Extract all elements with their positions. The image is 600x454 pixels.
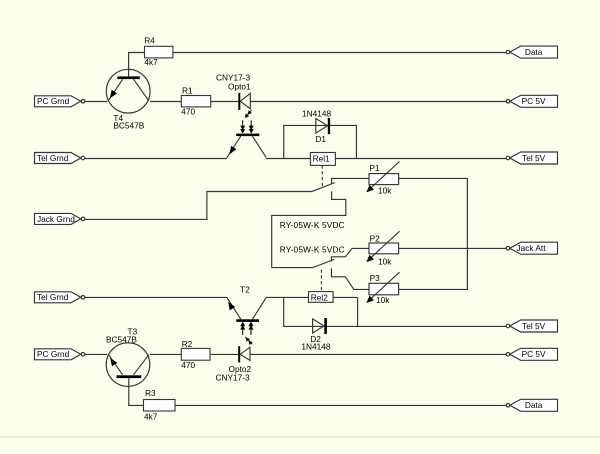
port Tel 5V bottom	[506, 320, 557, 332]
port Jack Grnd	[35, 213, 85, 224]
wire Opto1 LED to PC 5V	[250, 101, 506, 103]
svg-text:10k: 10k	[378, 256, 392, 266]
port PC 5V bottom	[506, 348, 557, 360]
svg-text:Opto1: Opto1	[228, 82, 251, 92]
wire T3 base to R3	[129, 378, 144, 405]
wire PC Grnd to T3 emitter	[85, 353, 107, 355]
diode D2	[313, 318, 327, 334]
svg-text:RY-05W-K 5VDC: RY-05W-K 5VDC	[280, 220, 345, 230]
wire Tel Grnd to Opto2 emitter	[85, 296, 227, 298]
svg-text:4k7: 4k7	[144, 57, 158, 67]
wire Tel Grnd to Opto1 emitter	[85, 158, 227, 160]
dashed link Rel1 to switch S1	[321, 165, 323, 186]
port Data bottom	[506, 399, 557, 411]
wire D1 loop	[284, 125, 357, 158]
svg-text:1N4148: 1N4148	[301, 341, 330, 351]
svg-text:R3: R3	[145, 388, 156, 398]
relay coil Rel1	[310, 153, 335, 166]
resistor R2	[181, 348, 210, 360]
diode D1	[316, 118, 330, 134]
wire P2 to Jack Att	[399, 247, 507, 249]
Opto1 light arrows	[240, 110, 254, 134]
svg-text:PC Grnd: PC Grnd	[37, 96, 70, 106]
port PC 5V top	[506, 95, 557, 107]
wire PC Grnd to T4 emitter	[85, 101, 107, 103]
dashed link Rel2 to switch S2	[320, 270, 322, 292]
optocoupler U2 Opto2 LED	[238, 346, 250, 362]
svg-text:D1: D1	[315, 134, 326, 144]
svg-text:P1: P1	[369, 163, 380, 173]
optocoupler U1 Opto1 phototransistor	[227, 134, 266, 158]
relay switch S2 arm	[312, 259, 334, 268]
resistor R3	[144, 400, 176, 412]
wire Jack Grnd to Rel1 switch common	[85, 192, 312, 220]
wire S2 lower contact to P3	[331, 268, 369, 289]
svg-text:CNY17-3: CNY17-3	[216, 373, 251, 383]
wire P1 to P3 junction rail	[399, 178, 468, 289]
wire R2 to Opto2 LED	[211, 353, 239, 355]
transistor T4	[106, 69, 150, 113]
svg-text:P3: P3	[370, 273, 381, 283]
port Data top	[506, 46, 557, 58]
relay coil Rel2	[309, 292, 334, 303]
transistor T3	[106, 343, 150, 387]
svg-text:P2: P2	[370, 233, 381, 243]
svg-text:Data: Data	[525, 47, 543, 57]
svg-text:10k: 10k	[378, 186, 392, 196]
wire T3 collector to R2	[150, 353, 181, 355]
svg-text:470: 470	[181, 107, 195, 117]
svg-text:RY-05W-K 5VDC: RY-05W-K 5VDC	[280, 245, 345, 255]
svg-text:Tel Grnd: Tel Grnd	[37, 153, 69, 163]
svg-text:T2: T2	[240, 284, 250, 294]
svg-text:R4: R4	[144, 35, 155, 45]
wire R3 to Data bottom rail	[175, 404, 506, 406]
port Jack Att	[506, 242, 557, 254]
svg-text:R1: R1	[182, 85, 193, 95]
resistor R1	[181, 96, 210, 107]
optocoupler U2 Opto2 phototransistor T2	[227, 298, 266, 322]
svg-text:Tel 5V: Tel 5V	[522, 321, 546, 331]
port PC Grnd top	[35, 96, 85, 107]
wire S1 lower contact to S2 common	[272, 191, 346, 267]
svg-text:1N4148: 1N4148	[302, 108, 331, 118]
relay switch S1 arm	[311, 183, 335, 192]
wire Data top rail	[173, 52, 506, 54]
potentiometer P2	[366, 231, 399, 262]
svg-text:Tel Grnd: Tel Grnd	[37, 292, 69, 302]
wire S2 upper contact to P2	[331, 248, 369, 261]
potentiometer P3	[366, 272, 399, 303]
svg-text:Tel 5V: Tel 5V	[522, 153, 546, 163]
resistor R4	[145, 46, 173, 58]
wire S1 upper contact to P1	[332, 178, 369, 184]
svg-text:Jack Grnd: Jack Grnd	[37, 214, 75, 224]
frame bottom edge	[0, 436, 600, 438]
svg-text:10k: 10k	[376, 295, 390, 305]
svg-text:Rel2: Rel2	[311, 292, 328, 302]
wire Opto1 collector to Tel 5V rail	[266, 158, 506, 160]
svg-text:PC 5V: PC 5V	[522, 349, 546, 359]
wire Opto2 LED to PC 5V	[250, 353, 506, 355]
wire T4 collector to R1	[150, 101, 181, 103]
svg-text:BC547B: BC547B	[106, 335, 137, 345]
wire R4 to T4 base	[129, 53, 145, 77]
Opto2 light arrows	[240, 322, 253, 345]
port Tel Grnd top	[35, 153, 85, 164]
wire R1 to Opto1 LED	[211, 101, 239, 103]
potentiometer P1	[366, 162, 399, 193]
wire D2 loop to Tel 5V	[358, 325, 507, 327]
svg-text:4k7: 4k7	[144, 412, 158, 422]
port PC Grnd bottom	[35, 349, 85, 360]
svg-text:Data: Data	[525, 400, 543, 410]
svg-text:R2: R2	[182, 339, 193, 349]
svg-text:470: 470	[181, 360, 195, 370]
svg-text:Jack Att: Jack Att	[516, 243, 546, 253]
port Tel 5V top	[506, 152, 557, 164]
svg-text:PC Grnd: PC Grnd	[37, 349, 70, 359]
optocoupler U1 Opto1 LED	[238, 93, 250, 110]
wire D2 loop	[284, 297, 358, 326]
wire Opto2 collector to Rel2	[266, 296, 357, 298]
svg-text:Rel1: Rel1	[313, 154, 330, 164]
svg-text:BC547B: BC547B	[113, 121, 144, 131]
port Tel Grnd bottom	[35, 292, 85, 303]
svg-text:PC 5V: PC 5V	[522, 96, 546, 106]
